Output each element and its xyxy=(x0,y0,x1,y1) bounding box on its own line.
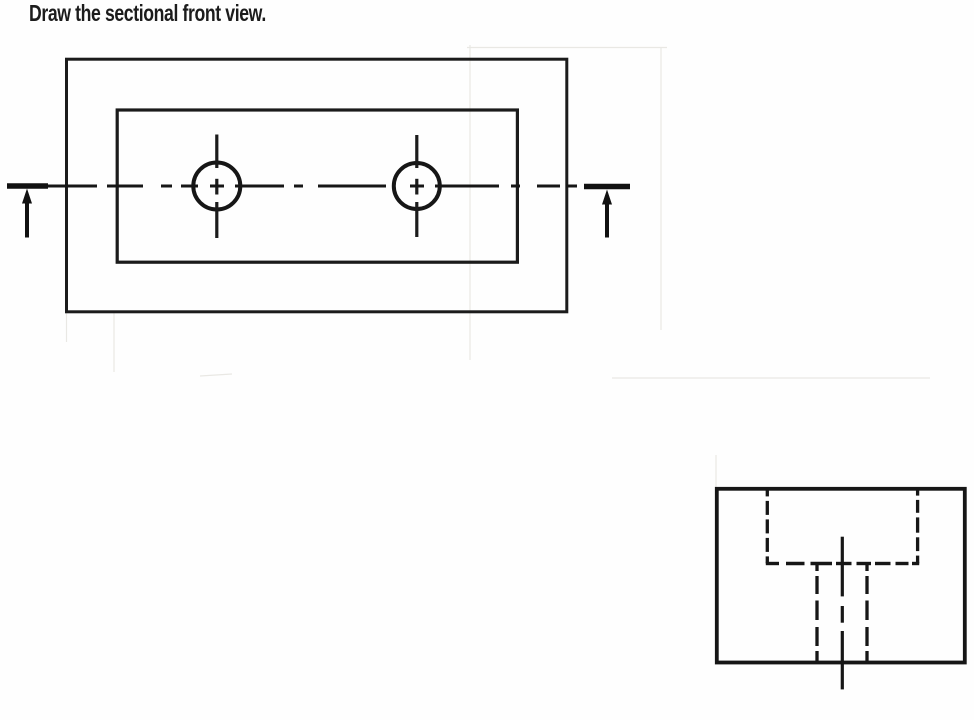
vertical centerline of right hole xyxy=(415,135,418,237)
thick section line end, left xyxy=(7,183,48,189)
horizontal cutting-plane chain line xyxy=(48,185,577,188)
instruction text xyxy=(29,0,266,27)
hole circle right xyxy=(394,163,440,209)
hidden line: hole left vertical xyxy=(815,564,818,663)
outer rectangle of plan view xyxy=(67,59,567,312)
hidden line: counterbore bottom horizontal xyxy=(766,562,919,565)
hole circle left xyxy=(193,163,240,210)
vertical centerline of side view xyxy=(841,537,844,690)
inner rectangle (slot boundary) xyxy=(117,110,517,262)
side view outline rectangle xyxy=(717,489,965,663)
hidden line: hole right vertical xyxy=(865,564,868,663)
hidden line: left vertical of counterbore xyxy=(766,489,769,564)
section arrow right xyxy=(602,190,612,238)
faint erased construction lines (scan artifacts) xyxy=(67,45,931,487)
section arrow left xyxy=(22,189,32,238)
hidden line: right vertical of counterbore xyxy=(916,489,919,564)
thick section line end, right xyxy=(584,184,630,190)
vertical centerline of left hole xyxy=(215,135,218,239)
